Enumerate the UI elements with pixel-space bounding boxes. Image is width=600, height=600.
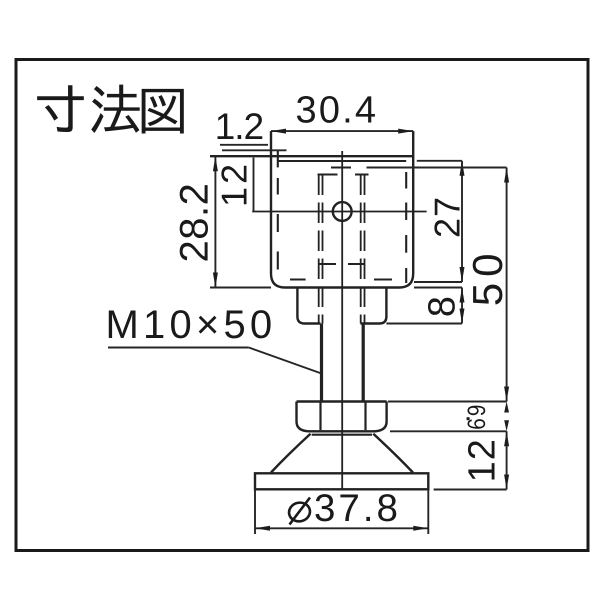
phi symbol xyxy=(287,501,311,524)
thread hole bottom dash right xyxy=(348,263,365,265)
cavity bottom dash right xyxy=(374,279,392,281)
arrow 8 bottom xyxy=(460,309,465,324)
foot base plate xyxy=(255,473,428,489)
cap body outline xyxy=(271,131,413,287)
dim line phi37.8 xyxy=(255,527,428,529)
rod thread line L2 (hidden) xyxy=(322,175,324,324)
title kanji ZU xyxy=(142,89,184,134)
dim line 12 depth xyxy=(253,158,255,212)
M10×50 leader diagonal xyxy=(249,348,322,374)
dim line 27 xyxy=(461,161,463,282)
arrow 27 top xyxy=(460,161,465,176)
dim line 12 foot xyxy=(506,431,508,489)
dim text 8 xyxy=(428,298,455,316)
dim line 8 xyxy=(461,288,463,324)
arrow 30.4 left xyxy=(271,129,286,134)
rod thread line L1 (hidden) xyxy=(318,175,320,324)
dim text 1.2 xyxy=(218,114,234,139)
arrow 50 top xyxy=(504,168,509,183)
cavity bottom dash left xyxy=(290,279,306,281)
title kanji SUN xyxy=(37,85,84,132)
label M10×50 xyxy=(109,310,136,338)
arrow 12 top xyxy=(504,431,509,446)
phi37.8 extension right xyxy=(427,490,429,535)
dim text 12 foot xyxy=(468,441,495,479)
nut facet line left xyxy=(319,402,321,431)
phi37.8 extension left xyxy=(254,490,256,535)
title kanji HOU xyxy=(91,85,140,133)
cap inner wall right (hidden) xyxy=(405,172,407,189)
foot swivel seat line xyxy=(312,434,372,436)
27 bottom extension xyxy=(414,281,462,283)
arrow 12 bottom xyxy=(504,475,509,490)
thread hole bottom dash left xyxy=(319,263,337,265)
neck outline right xyxy=(361,288,387,324)
nut top extension xyxy=(388,401,507,403)
arrow 6.9 bottom xyxy=(504,420,509,431)
foot cone slope right xyxy=(373,434,413,473)
27 top extension xyxy=(417,160,462,162)
dim line 30.4 xyxy=(271,130,413,132)
arrow 6.9 top xyxy=(504,402,509,413)
vertical centerline xyxy=(341,151,343,490)
dim text 27 xyxy=(434,199,459,236)
foot cone slope left xyxy=(271,434,311,473)
rod left edge xyxy=(320,324,323,402)
dim text 37.8 xyxy=(315,494,333,521)
drawing border frame xyxy=(16,60,588,551)
rod right edge xyxy=(362,324,365,402)
arrow 50 bottom xyxy=(504,387,509,402)
cap inner wall left (hidden) xyxy=(277,151,279,167)
M10×50 leader underline xyxy=(108,347,249,349)
thread top dash left xyxy=(318,174,338,176)
rod thread line R2 (hidden) xyxy=(364,175,366,324)
nut outline xyxy=(297,402,387,432)
rod top hidden dash xyxy=(331,167,351,169)
dim text 12 depth xyxy=(221,166,246,204)
horizontal centerline xyxy=(252,211,426,213)
thread top dash right xyxy=(355,174,369,176)
dim line 50 xyxy=(506,168,508,402)
arrow phi37.8 right xyxy=(413,526,428,531)
arrow 28.2 bottom xyxy=(213,273,218,288)
nut facet line right xyxy=(364,402,366,431)
nut top edge xyxy=(297,400,387,402)
arrow 8 top xyxy=(460,288,465,303)
arrow 27 bottom xyxy=(460,267,465,282)
line 1.2 lower (cap lip) xyxy=(222,149,287,151)
neck outline left xyxy=(297,288,320,324)
dim text 30.4 xyxy=(297,96,315,123)
leader line 1.2 upper xyxy=(220,144,268,146)
12 bottom extension xyxy=(434,489,507,491)
cap inner top surface xyxy=(278,160,406,162)
arrow phi37.8 left xyxy=(255,526,270,531)
center hole circle xyxy=(333,202,352,221)
dim text 6.9 xyxy=(467,406,485,429)
decimal dot of 6.9 xyxy=(467,417,470,420)
50 top extension (rod top) xyxy=(367,167,507,169)
nut bottom extension xyxy=(390,430,507,432)
8 top extension (cap bottom) xyxy=(414,287,462,289)
cap top edge + 28.2 extension xyxy=(210,155,413,157)
dim line 28.2 xyxy=(214,156,216,287)
arrow 28.2 top xyxy=(213,156,218,171)
dim text 28.2 xyxy=(180,185,208,260)
arrow 30.4 right xyxy=(398,129,413,134)
dim text 50 xyxy=(473,255,503,304)
phi symbol slash xyxy=(290,498,311,525)
rod thread line R1 (hidden) xyxy=(360,175,362,324)
8 bottom extension (neck bottom) xyxy=(386,323,462,325)
28.2 bottom extension xyxy=(210,287,271,289)
